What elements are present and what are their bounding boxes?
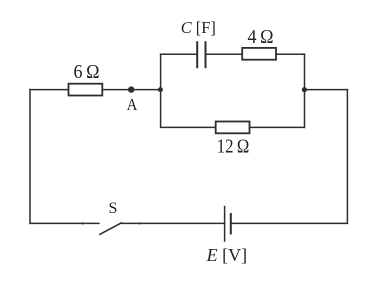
svg-text:A: A (127, 95, 138, 114)
node A (128, 86, 134, 92)
resistor 4 ohm (242, 48, 276, 60)
wire top branch to capacitor (161, 53, 198, 55)
wire switch to battery (121, 222, 224, 224)
svg-text:12 Ω: 12 Ω (217, 136, 250, 157)
wire capacitor to 4 ohm resistor (206, 53, 243, 55)
wire parallel block left vertical (160, 54, 162, 127)
wire bottom branch to 12 ohm resistor (161, 126, 215, 128)
svg-text:E [V]: E [V] (206, 245, 248, 265)
capacitor C right plate (205, 42, 207, 67)
svg-text:S: S (109, 200, 118, 217)
wire parallel block right vertical (304, 54, 306, 127)
junction dot left of parallel block (158, 87, 163, 92)
wire top-left from corner to 6 ohm resistor (30, 89, 68, 91)
svg-text:6 Ω: 6 Ω (74, 62, 100, 83)
battery E long plate (224, 207, 226, 242)
svg-text:4 Ω: 4 Ω (248, 27, 274, 48)
switch S blade (100, 223, 121, 234)
switch terminal dot right (138, 222, 140, 224)
switch terminal dot left (82, 222, 84, 224)
wire junction to outer right vertical (305, 89, 348, 91)
wire right outer vertical (346, 90, 348, 224)
wire left outer vertical (29, 90, 31, 224)
wire 12 ohm to block right vertical (250, 126, 304, 128)
svg-text:C [F]: C [F] (181, 18, 216, 37)
battery E short plate (230, 214, 232, 234)
junction dot right of parallel block (302, 87, 307, 92)
wire from 6 ohm through node A to parallel block (103, 89, 160, 91)
resistor 6 ohm (69, 84, 103, 96)
capacitor C left plate (196, 42, 198, 67)
wire bottom-left to switch (30, 222, 99, 224)
resistor 12 ohm (216, 122, 250, 134)
wire battery to bottom-right corner (231, 222, 348, 224)
wire 4 ohm to block right vertical (277, 53, 305, 55)
